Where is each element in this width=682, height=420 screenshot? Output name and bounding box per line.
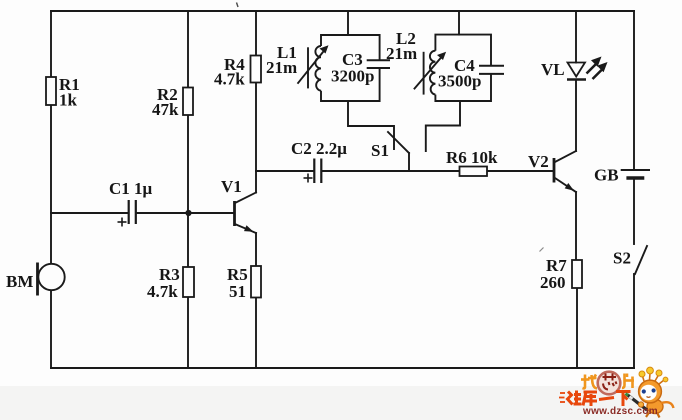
watermark logo 找芯片 badge <box>581 372 634 395</box>
switch S2 arm <box>635 246 647 274</box>
watermark char 找 <box>581 375 597 389</box>
wire R4 to V1 collector <box>255 83 257 193</box>
svg-text:4.7k: 4.7k <box>214 70 245 89</box>
char 一 <box>599 398 614 400</box>
battery GB short plate <box>626 176 644 179</box>
speck near R7 <box>540 248 544 252</box>
watermark magnifier badge circle <box>598 372 621 395</box>
wire right rail mid (GB to S2) <box>633 178 635 244</box>
wire VL top (rail to LED) <box>575 11 577 63</box>
mascot tail <box>661 402 674 408</box>
mascot body <box>647 400 663 414</box>
mascot face <box>640 385 656 401</box>
microphone BM circle <box>38 264 64 290</box>
svg-text:3500p: 3500p <box>438 72 481 91</box>
wire R7 to bottom rail <box>576 288 578 368</box>
battery GB long plate <box>621 169 650 171</box>
junction dot (C1/R2/R3/V1 base node) <box>185 210 191 216</box>
capacitor C4 plates <box>479 66 504 74</box>
scanner gray strip at bottom <box>0 386 682 420</box>
svg-text:1k: 1k <box>59 91 78 110</box>
wire left rail lower (BM to bottom) <box>50 290 52 368</box>
LED VL light arrow 1 <box>587 64 597 74</box>
inductor L2 adjust arrow <box>414 56 443 90</box>
mascot head <box>639 380 662 403</box>
resistor R3 <box>183 267 194 297</box>
char 库 <box>584 391 598 394</box>
transistor V2 emitter lead <box>555 178 576 192</box>
capacitor C1 plates <box>129 200 136 224</box>
wire R2 branch upper <box>187 11 189 88</box>
svg-text:R6 10k: R6 10k <box>446 148 498 167</box>
inductor L1 adjust arrow <box>298 50 326 84</box>
inductor L2 core bar <box>423 52 425 95</box>
wire C1 to junction <box>137 212 189 214</box>
svg-text:S1: S1 <box>371 141 389 160</box>
svg-text:C2 2.2μ: C2 2.2μ <box>291 139 347 158</box>
wire tank1 top drop <box>347 11 349 35</box>
speck above top rail <box>237 3 239 8</box>
char 维 <box>568 392 573 405</box>
wire tank1 bottom to S1 contact <box>348 101 394 149</box>
wire R3 to bottom rail <box>187 297 189 368</box>
mascot antenna stems <box>643 373 665 384</box>
transistor V1 base bar <box>233 201 236 226</box>
transistor V1 emitter arrowhead <box>244 225 254 232</box>
LED VL light arrow 2 <box>593 69 603 79</box>
wire left rail mid (R1 to BM) <box>50 105 52 264</box>
resistor R1 <box>46 77 56 105</box>
resistor R4 <box>251 56 262 83</box>
resistor R2 <box>183 88 193 116</box>
wire R6 to V2 base <box>487 170 553 172</box>
wire C1 left (rail to C1) <box>51 212 128 214</box>
wire V1 emitter down to R5 <box>255 233 257 266</box>
watermark red text 维库一下 <box>559 391 631 407</box>
svg-text:V2: V2 <box>528 152 549 171</box>
wire LED to V2 collector <box>575 80 577 152</box>
switch S1 arm <box>388 132 409 153</box>
transistor V1 collector lead <box>236 193 256 203</box>
svg-text:BM: BM <box>6 272 33 291</box>
wire tank2 top drop <box>458 11 460 35</box>
resistor R7 <box>572 260 582 288</box>
resistor R5 <box>251 266 261 298</box>
transistor V2 base bar <box>553 158 556 183</box>
svg-text:4.7k: 4.7k <box>147 282 178 301</box>
inductor L2 coil <box>430 51 436 95</box>
mascot antenna balls <box>639 371 645 377</box>
wire R4 branch upper <box>255 11 257 56</box>
wire left rail upper <box>50 11 52 77</box>
tank1 loop rectangle (L1/C3) <box>321 35 380 101</box>
transistor V2 emitter arrowhead <box>565 183 574 191</box>
wire right rail lower (S2 to bottom) <box>633 274 635 368</box>
capacitor C2 plus sign <box>304 174 313 183</box>
mascot mouth <box>647 396 651 399</box>
wire R5 to bottom rail <box>255 298 257 369</box>
wire V2 emitter to R7 <box>575 192 577 260</box>
capacitor C1 plus sign <box>118 218 127 227</box>
svg-text:21m: 21m <box>386 44 417 63</box>
LED VL cathode bar <box>567 78 586 80</box>
tank2 loop rectangle (L2/C4) <box>435 35 491 101</box>
mascot legs <box>646 413 649 418</box>
svg-text:51: 51 <box>229 282 246 301</box>
speed lines <box>559 393 565 402</box>
watermark mascot <box>626 367 674 417</box>
inductor L1 core bar <box>307 47 309 88</box>
svg-text:GB: GB <box>594 166 619 185</box>
resistor R6 <box>460 167 488 177</box>
mascot pen <box>627 395 647 411</box>
svg-text:S2: S2 <box>613 249 631 268</box>
svg-text:47k: 47k <box>152 100 179 119</box>
wire C2 to R6 (middle wire) <box>322 170 460 172</box>
wire junction to V1 base <box>188 212 234 214</box>
wire bottom rail <box>51 367 634 369</box>
svg-text:V1: V1 <box>221 177 242 196</box>
svg-text:21m: 21m <box>266 58 297 77</box>
wire R2 to junction to R3 <box>187 115 189 267</box>
mascot eyes <box>642 389 646 393</box>
watermark char 芯 inside badge <box>603 374 617 390</box>
capacitor C3 plates <box>367 60 390 68</box>
char 下 <box>616 390 631 393</box>
svg-text:3200p: 3200p <box>331 67 374 86</box>
wire top rail <box>51 10 634 12</box>
transistor V1 emitter lead <box>236 225 256 234</box>
svg-text:C1 1μ: C1 1μ <box>109 179 153 198</box>
wire tank2 bottom to S1 open contact <box>426 101 460 151</box>
wire S1 pivot to middle wire <box>408 153 410 171</box>
microphone BM bar <box>36 263 39 296</box>
mascot hand <box>638 402 643 407</box>
transistor V2 collector lead <box>555 151 576 162</box>
svg-text:260: 260 <box>540 273 566 292</box>
watermark char 片 <box>622 374 634 389</box>
capacitor C2 plates <box>314 159 321 184</box>
LED VL triangle <box>568 63 586 77</box>
svg-text:VL: VL <box>541 60 565 79</box>
inductor L1 coil <box>315 46 321 91</box>
wire right rail upper (top to GB) <box>633 11 635 170</box>
svg-text:www.dzsc.com: www.dzsc.com <box>582 406 658 417</box>
wire V1 collector to C2 (middle wire left) <box>256 170 314 172</box>
